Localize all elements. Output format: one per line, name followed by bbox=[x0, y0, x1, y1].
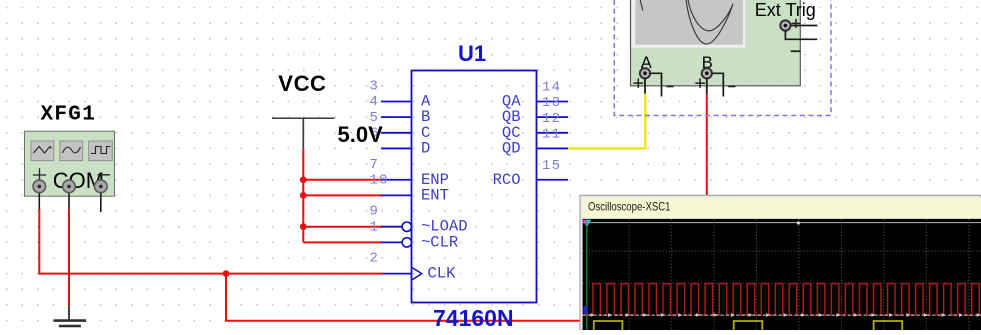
wire XFG1 + output to CLK node bbox=[39, 209, 383, 274]
svg-text:CLK: CLK bbox=[428, 265, 457, 283]
svg-text:VCC: VCC bbox=[278, 71, 326, 96]
selection box around XSC1 bbox=[614, 0, 831, 116]
wire VCC to ENP bbox=[303, 179, 382, 181]
svg-text:74160N: 74160N bbox=[433, 305, 514, 330]
Ext Trig plus mark bbox=[792, 19, 801, 28]
svg-text:2: 2 bbox=[370, 251, 380, 267]
svg-text:3: 3 bbox=[370, 79, 380, 95]
pin stub ENP bbox=[381, 179, 412, 181]
svg-text:ENT: ENT bbox=[421, 186, 449, 204]
wire VCC rail bbox=[302, 149, 304, 243]
junction VCC/ENT bbox=[300, 192, 307, 199]
pin bubble ~CLR bbox=[402, 238, 411, 247]
channel B bracket bbox=[712, 73, 723, 96]
pin stub ~LOAD bbox=[381, 226, 402, 228]
svg-text:13: 13 bbox=[542, 95, 561, 111]
channel A pin bbox=[644, 78, 646, 93]
oscilloscope window XSC1 frame bbox=[580, 195, 981, 330]
channel B pin bbox=[706, 78, 708, 93]
clock triangle CLK bbox=[412, 267, 422, 280]
svg-text:QD: QD bbox=[502, 139, 521, 157]
svg-text:9: 9 bbox=[370, 204, 380, 220]
power symbol VCC bbox=[272, 118, 335, 149]
svg-text:Ext Trig: Ext Trig bbox=[755, 0, 816, 20]
pin stub QB bbox=[537, 116, 569, 118]
svg-text:Oscilloscope-XSC1: Oscilloscope-XSC1 bbox=[588, 200, 671, 214]
wire VCC to ~CLR bbox=[303, 241, 382, 243]
pin stub A bbox=[381, 101, 412, 103]
svg-text:D: D bbox=[421, 139, 430, 157]
svg-text:12: 12 bbox=[542, 111, 561, 127]
pin bubble ~LOAD bbox=[402, 222, 411, 231]
Ext Trig terminal bbox=[780, 20, 790, 30]
channel B terminal bbox=[702, 68, 712, 78]
plot top hairline bbox=[583, 222, 981, 224]
pin stub QA bbox=[537, 101, 569, 103]
channel A terminal bbox=[640, 68, 650, 78]
XFG1 pin stubs bbox=[39, 186, 101, 212]
svg-text:U1: U1 bbox=[458, 41, 486, 66]
wire QD to oscilloscope A input (yellow) bbox=[568, 94, 646, 149]
pin stub RCO bbox=[537, 179, 569, 181]
wire VCC to ENT bbox=[303, 194, 382, 196]
wire VCC to ~LOAD bbox=[303, 226, 382, 228]
time baseline with sample arrows bbox=[583, 313, 981, 317]
pin stub ENT bbox=[381, 194, 412, 196]
svg-text:XFG1: XFG1 bbox=[41, 104, 97, 127]
channel A trace (QD square wave, yellow) bbox=[594, 321, 902, 335]
pin stub QC bbox=[537, 132, 569, 134]
oscilloscope window title bar bbox=[583, 198, 981, 218]
pin stub C bbox=[381, 132, 412, 134]
channel B minus mark bbox=[728, 85, 735, 87]
pin stub CLK bbox=[383, 273, 412, 275]
wire oscilloscope B input bbox=[706, 94, 708, 196]
svg-text:RCO: RCO bbox=[493, 171, 521, 189]
function generator XFG1 bbox=[25, 131, 115, 196]
svg-text:4: 4 bbox=[370, 94, 380, 110]
Ext Trig minus mark bbox=[791, 50, 801, 52]
svg-text:11: 11 bbox=[542, 126, 561, 142]
XFG1 plus terminal mark bbox=[33, 168, 46, 181]
top tick marker bbox=[797, 221, 800, 224]
XFG1 terminals bbox=[33, 180, 107, 193]
cursor 1 vertical line bbox=[586, 219, 588, 330]
pin stub QD bbox=[537, 147, 569, 149]
svg-text:10: 10 bbox=[370, 172, 389, 188]
wire XFG1 COM to ground bbox=[68, 209, 70, 306]
channel B trace (CLK square wave, red) bbox=[583, 284, 981, 315]
pin stub D bbox=[381, 147, 412, 149]
Ext Trig connection lines bbox=[785, 26, 817, 40]
svg-text:14: 14 bbox=[542, 80, 561, 96]
op IC U1 74160N body bbox=[412, 71, 537, 303]
junction on CLK wire bbox=[223, 270, 230, 277]
oscilloscope instrument XSC1 body bbox=[631, 0, 801, 86]
XFG1 minus terminal mark bbox=[98, 174, 111, 176]
junction VCC/ENP bbox=[300, 176, 307, 183]
wire junction to oscilloscope channel B (bottom) bbox=[226, 274, 580, 321]
svg-text:5: 5 bbox=[370, 110, 380, 126]
junction VCC/~LOAD bbox=[300, 223, 307, 230]
svg-text:15: 15 bbox=[542, 158, 561, 174]
svg-text:7: 7 bbox=[370, 157, 380, 173]
channel B plus mark bbox=[695, 78, 705, 88]
pin stub ~CLR bbox=[381, 241, 402, 243]
plot grid bbox=[629, 219, 969, 330]
svg-text:~CLR: ~CLR bbox=[421, 233, 458, 251]
channel B reference marker bbox=[583, 306, 587, 314]
channel A bracket bbox=[651, 73, 662, 96]
channel A minus mark bbox=[666, 85, 673, 87]
cursor 1 handle (top-left triangle) bbox=[583, 220, 592, 228]
ground bbox=[54, 306, 87, 326]
oscilloscope plot area bbox=[583, 219, 981, 330]
channel A plus mark bbox=[634, 78, 644, 88]
pin stub B bbox=[381, 116, 412, 118]
svg-text:1: 1 bbox=[370, 219, 380, 235]
oscilloscope screen bbox=[632, 0, 746, 48]
